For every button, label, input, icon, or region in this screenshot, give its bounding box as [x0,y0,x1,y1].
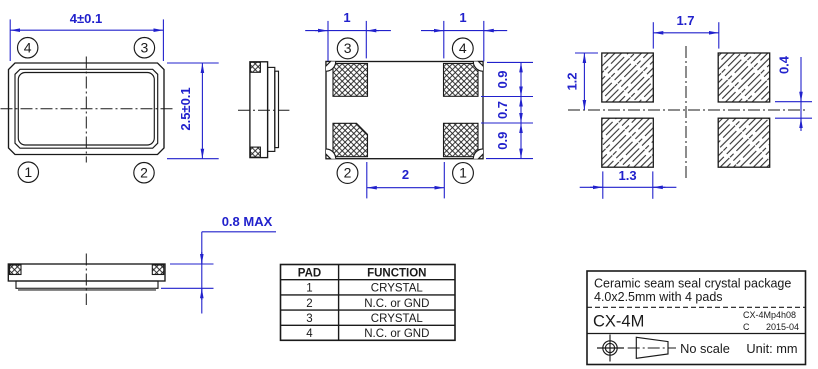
dimension 4±0.1 [9,19,11,61]
svg-text:1.2: 1.2 [565,72,580,90]
dimension 1.7 [652,22,654,48]
dimension 1 (top-left) [327,21,329,61]
svg-text:C: C [743,322,750,332]
corner castellation bottom-right [473,149,483,159]
svg-text:CRYSTAL: CRYSTAL [371,313,424,325]
svg-text:4: 4 [306,328,313,340]
svg-text:0.4: 0.4 [777,55,792,74]
svg-text:0.9: 0.9 [495,132,510,150]
svg-text:0.7: 0.7 [495,101,510,119]
dimension 1.2 [575,52,598,54]
body [250,62,268,158]
dimension 2.5±0.1 [167,62,219,64]
svg-text:1.3: 1.3 [619,168,637,183]
svg-text:CX-4Mp4h08: CX-4Mp4h08 [743,310,796,320]
svg-text:N.C. or GND: N.C. or GND [364,298,429,310]
svg-text:2: 2 [306,298,312,310]
pin circle 4 [18,38,38,58]
svg-text:1: 1 [24,164,32,180]
land pad bottom-left [602,118,654,167]
svg-text:Ceramic seam seal crystal pack: Ceramic seam seal crystal package [594,277,791,291]
dimension 2 (bottom) [366,162,368,198]
svg-text:2015-04: 2015-04 [766,322,799,332]
svg-text:4.0x2.5mm with 4 pads: 4.0x2.5mm with 4 pads [594,290,723,304]
vertical centerline [685,46,687,178]
svg-text:2: 2 [140,164,148,180]
outer package outline with chamfered corners [9,63,165,155]
svg-text:3: 3 [344,40,352,56]
svg-text:3: 3 [141,39,149,55]
svg-text:Unit: mm: Unit: mm [746,341,797,356]
svg-text:0.9: 0.9 [495,70,510,88]
body [8,264,165,281]
svg-text:CX-4M: CX-4M [593,313,644,331]
svg-text:2.5±0.1: 2.5±0.1 [178,87,193,130]
left pad hatch [10,265,22,275]
corner castellation bottom-left [326,149,336,159]
pin circle 3 [134,38,154,58]
pin circle 2 [134,163,154,183]
svg-text:1: 1 [459,165,467,181]
dimension 1.3 [602,171,604,198]
centerline [238,109,289,111]
svg-text:CRYSTAL: CRYSTAL [371,283,424,295]
seam line (gray) [18,289,156,291]
dimension 1 (top-right) [443,21,445,59]
horizontal centerline [568,109,808,111]
svg-text:No scale: No scale [680,341,730,356]
dimensions 0.9 / 0.7 / 0.9 (right side) [487,61,533,63]
projection symbol circle [603,341,617,355]
svg-text:FUNCTION: FUNCTION [367,267,426,279]
svg-text:2: 2 [344,165,352,181]
svg-text:1.7: 1.7 [676,13,694,28]
land pad top-right [718,53,770,102]
pin circle 1 [453,163,474,184]
svg-text:3: 3 [306,313,312,325]
corner castellation top-right [473,62,483,72]
svg-text:1: 1 [306,283,312,295]
vertical centerline [85,57,87,163]
svg-text:4: 4 [459,40,467,56]
svg-text:4: 4 [24,39,32,55]
svg-text:N.C. or GND: N.C. or GND [364,328,429,340]
pin circle 1 [18,162,38,182]
top pad hatch [250,62,260,72]
pin circle 4 [452,38,473,59]
dimension 0.4 [775,101,812,103]
svg-text:4±0.1: 4±0.1 [70,11,102,26]
pad 1 (bottom-right) [444,123,479,156]
land pad top-left [602,53,654,102]
pad 2 (bottom-left, chamfered) [333,123,368,156]
middle seam outline [15,69,158,148]
svg-text:0.8 MAX: 0.8 MAX [222,214,273,229]
svg-text:1: 1 [459,10,466,25]
lid plate [268,67,275,151]
projection symbol cone [628,347,676,349]
corner castellation top-left [326,62,336,72]
bottom pad hatch [250,147,260,157]
land pad bottom-right [718,118,770,167]
vertical centerline [85,254,87,306]
pin circle 2 [337,163,358,184]
lid outer plate [275,71,279,147]
svg-text:PAD: PAD [298,267,321,279]
right pad hatch [152,265,164,275]
pad 3 (top-left) [333,64,368,97]
inner lid outline (rounded) [18,73,154,146]
pad 4 (top-right) [444,64,479,97]
svg-text:1: 1 [343,10,350,25]
svg-text:2: 2 [402,167,409,182]
horizontal centerline [1,108,175,110]
lid step [16,281,158,288]
package outline [326,62,483,159]
pin circle 3 [337,38,358,59]
